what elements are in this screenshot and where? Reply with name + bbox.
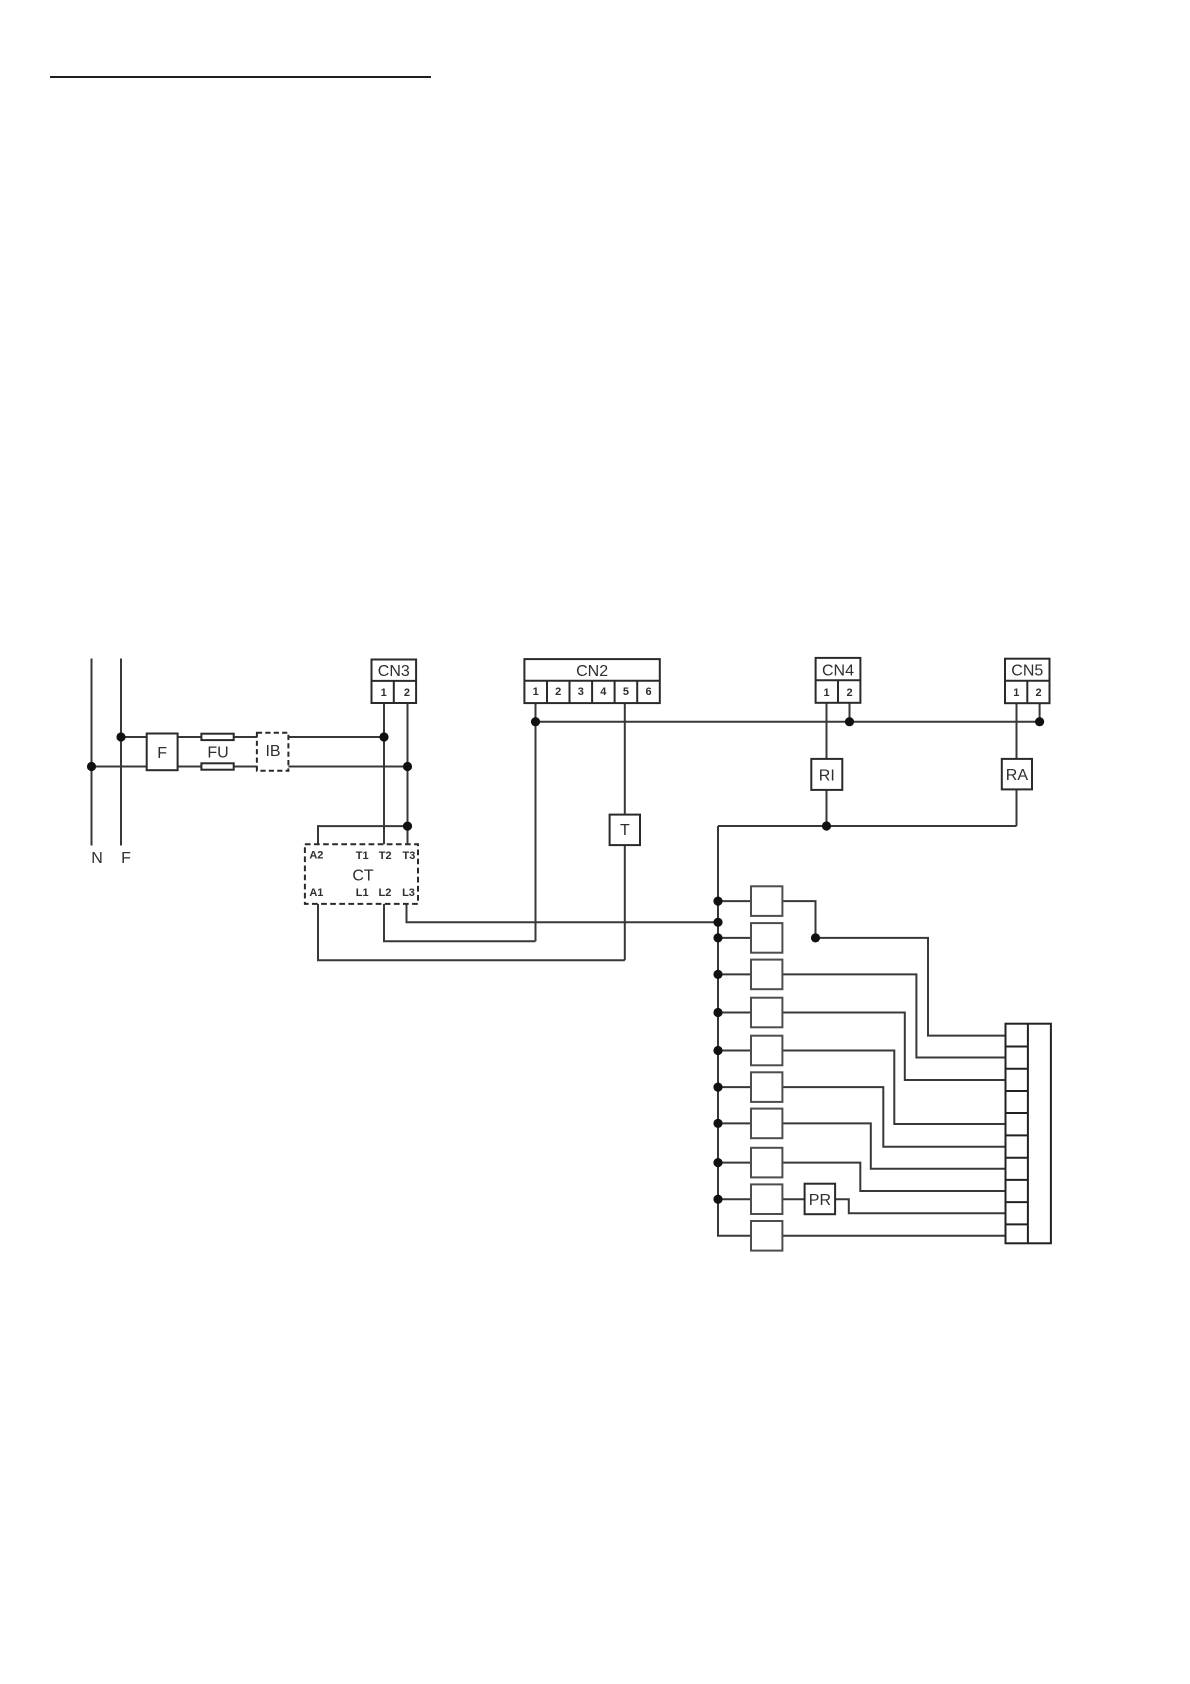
node bus K1 <box>713 897 722 906</box>
wire bottom feed N to CN3 pin2 <box>92 766 408 768</box>
wire K6 output to connector pin6 <box>782 1087 1005 1147</box>
wire RI to lower bus <box>826 790 828 826</box>
thermostat T <box>610 815 640 846</box>
svg-text:L3: L3 <box>402 887 415 899</box>
wire CN2 pin5 through T <box>624 703 626 960</box>
svg-text:CN5: CN5 <box>1011 663 1043 680</box>
wire K3 output to connector pin2 <box>782 974 1005 1057</box>
node bus K9 <box>713 1195 722 1204</box>
wire N rail <box>91 659 93 846</box>
wire K6 input <box>718 1086 751 1088</box>
relay RA <box>1002 759 1032 790</box>
wire K7 output to connector pin7 <box>782 1123 1005 1168</box>
wire CN3 pin2 to CT T3 <box>407 703 409 844</box>
svg-text:1: 1 <box>533 686 539 698</box>
svg-text:F: F <box>121 850 131 867</box>
wire lower bus RI-RA <box>718 825 1017 827</box>
wire CT L3 to relay bus <box>407 904 719 922</box>
svg-text:L2: L2 <box>378 887 391 899</box>
wire K8 output to connector pin8 <box>782 1163 1005 1191</box>
wire CT L2 to CN2 pin1 <box>384 904 536 941</box>
svg-text:2: 2 <box>404 687 410 699</box>
svg-text:A1: A1 <box>309 887 323 899</box>
relay K5 <box>751 1036 782 1066</box>
relay K9 <box>751 1184 782 1214</box>
fuse FU upper <box>201 734 233 740</box>
svg-text:CN4: CN4 <box>822 663 854 680</box>
svg-text:T2: T2 <box>379 850 392 862</box>
switch F <box>147 734 178 771</box>
wire upper bus CN2-CN4-CN5 <box>536 721 1040 723</box>
node bus K5 <box>713 1046 722 1055</box>
svg-text:L1: L1 <box>356 887 369 899</box>
wire K9 input <box>718 1198 751 1200</box>
wire PR output to connector pin9 <box>835 1199 1005 1213</box>
svg-text:FU: FU <box>207 744 228 761</box>
node CN3 pin2 feed <box>403 762 412 771</box>
svg-text:T: T <box>620 822 630 839</box>
connector CN2 <box>524 659 659 703</box>
fuse FU lower <box>201 763 233 769</box>
node bus K8 <box>713 1158 722 1167</box>
svg-text:1: 1 <box>381 687 387 699</box>
wire RA to lower bus <box>1016 789 1018 826</box>
wire relay bus vertical <box>718 826 751 1236</box>
wire top feed F to CN3 pin1 <box>121 736 384 738</box>
connector CN5 <box>1005 659 1050 704</box>
relay K4 <box>751 998 782 1028</box>
svg-text:T3: T3 <box>402 850 415 862</box>
connector CN1 header block <box>1006 1024 1051 1244</box>
svg-text:1: 1 <box>1013 687 1019 699</box>
svg-text:CT: CT <box>352 868 374 885</box>
svg-text:RI: RI <box>819 768 835 785</box>
svg-text:RA: RA <box>1006 767 1029 784</box>
svg-text:6: 6 <box>645 686 651 698</box>
wire F rail <box>120 659 122 846</box>
wire K4 output to connector pin3 <box>782 1013 1005 1081</box>
svg-text:PR: PR <box>809 1192 831 1209</box>
svg-text:T1: T1 <box>356 850 369 862</box>
wire CN4 pin1 to RI <box>826 703 828 759</box>
svg-text:F: F <box>157 745 167 762</box>
node bus K6 <box>713 1083 722 1092</box>
svg-text:2: 2 <box>847 687 853 699</box>
node CN5 pin2 bus <box>1035 717 1044 726</box>
svg-text:4: 4 <box>600 686 607 698</box>
node CN4 pin2 bus <box>845 717 854 726</box>
svg-text:2: 2 <box>555 686 561 698</box>
wire K1 input <box>718 900 751 902</box>
relay K6 <box>751 1072 782 1102</box>
contactor CT dashed outline <box>305 844 418 904</box>
wire K10 output to connector pin10 <box>782 1235 1005 1237</box>
wire CN3 pin1 to CT T2 <box>383 703 385 844</box>
svg-text:N: N <box>91 850 103 867</box>
relay K1 <box>751 886 782 916</box>
wire K2 input <box>718 937 751 939</box>
relay K7 <box>751 1109 782 1139</box>
svg-text:A2: A2 <box>309 849 323 861</box>
breaker IB dashed <box>257 733 289 771</box>
wire K2 output to connector pin1 <box>816 938 1006 1036</box>
node CN3 pin1 feed <box>379 732 388 741</box>
relay K2 <box>751 923 782 953</box>
wire K4 input <box>718 1012 751 1014</box>
node F-feed junction <box>116 732 125 741</box>
node A2 tap <box>403 822 412 831</box>
header rule <box>50 76 431 78</box>
svg-text:5: 5 <box>623 686 629 698</box>
node bus L3 <box>713 918 722 927</box>
relay K8 <box>751 1148 782 1178</box>
wire K5 output to connector pin5 <box>782 1051 1005 1125</box>
wire CT A2 link to pin2 node <box>318 826 408 844</box>
node bus K2 <box>713 933 722 942</box>
node CN2 pin1 bus <box>531 717 540 726</box>
wire K9 output to PR <box>782 1198 804 1200</box>
wire CN2 pin1 down <box>535 703 537 941</box>
svg-text:IB: IB <box>265 743 280 760</box>
relay K3 <box>751 960 782 990</box>
connector CN4 <box>816 658 861 703</box>
node bus K4 <box>713 1008 722 1017</box>
wire K7 input <box>718 1122 751 1124</box>
node RI bus <box>822 821 831 830</box>
wire K8 input <box>718 1162 751 1164</box>
relay RI <box>811 759 842 790</box>
node bus K3 <box>713 970 722 979</box>
wire CN5 pin2 stub <box>1039 703 1041 722</box>
connector CN3 <box>372 660 417 704</box>
wire K1 output to K2 node <box>782 901 815 938</box>
svg-text:2: 2 <box>1036 687 1042 699</box>
svg-text:3: 3 <box>578 686 584 698</box>
wire K3 input <box>718 973 751 975</box>
node N-feed junction <box>87 762 96 771</box>
node K1-K2 output join <box>811 933 820 942</box>
wire CN4 pin2 stub <box>849 703 851 722</box>
svg-text:1: 1 <box>824 687 830 699</box>
relay K10 <box>751 1221 782 1251</box>
wire K5 input <box>718 1050 751 1052</box>
wire CN5 pin1 to RA <box>1016 703 1018 759</box>
node bus K7 <box>713 1119 722 1128</box>
svg-text:CN3: CN3 <box>378 663 410 680</box>
relay PR <box>805 1184 836 1215</box>
svg-text:CN2: CN2 <box>576 663 608 680</box>
wire CT A1 to T line <box>318 904 625 960</box>
